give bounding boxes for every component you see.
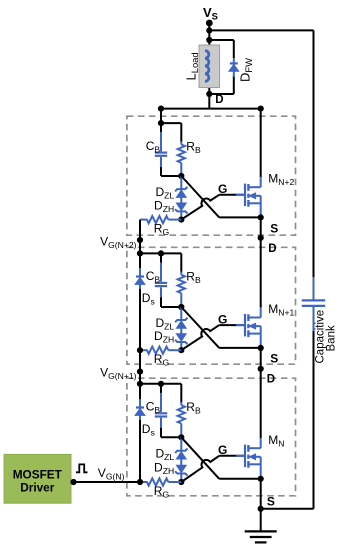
svg-text:DZH: DZH bbox=[154, 461, 174, 477]
svg-text:RG: RG bbox=[154, 352, 170, 368]
svg-text:D: D bbox=[267, 374, 275, 386]
svg-text:D: D bbox=[215, 94, 223, 106]
svg-text:RG: RG bbox=[154, 221, 170, 237]
svg-text:S: S bbox=[270, 221, 278, 235]
svg-text:Driver: Driver bbox=[20, 481, 55, 495]
svg-text:G: G bbox=[218, 443, 227, 457]
svg-text:G: G bbox=[218, 182, 227, 196]
svg-text:MN: MN bbox=[268, 433, 284, 449]
svg-text:CB: CB bbox=[146, 400, 161, 416]
svg-text:S: S bbox=[270, 352, 278, 366]
svg-text:G: G bbox=[218, 312, 227, 326]
svg-text:VS: VS bbox=[203, 5, 218, 22]
svg-text:D: D bbox=[268, 243, 276, 255]
svg-text:S: S bbox=[267, 494, 275, 508]
svg-text:CB: CB bbox=[146, 139, 161, 155]
svg-text:DFW: DFW bbox=[238, 58, 255, 82]
svg-text:RB: RB bbox=[186, 400, 201, 416]
svg-text:Ds: Ds bbox=[142, 422, 155, 438]
svg-text:VG(N+2): VG(N+2) bbox=[100, 235, 137, 251]
svg-text:MN+1: MN+1 bbox=[268, 302, 294, 318]
svg-text:Ds: Ds bbox=[142, 291, 155, 307]
svg-text:DZH: DZH bbox=[154, 198, 174, 214]
svg-text:RG: RG bbox=[154, 484, 170, 500]
svg-text:LLoad: LLoad bbox=[184, 52, 201, 80]
svg-text:Bank: Bank bbox=[325, 325, 337, 351]
svg-text:MN+2: MN+2 bbox=[268, 171, 294, 187]
svg-text:CB: CB bbox=[146, 269, 161, 285]
svg-text:VG(N): VG(N) bbox=[98, 466, 125, 482]
svg-text:MOSFET: MOSFET bbox=[13, 467, 63, 481]
svg-text:RB: RB bbox=[186, 270, 201, 286]
svg-text:RB: RB bbox=[186, 139, 201, 155]
svg-text:VG(N+1): VG(N+1) bbox=[100, 365, 137, 381]
